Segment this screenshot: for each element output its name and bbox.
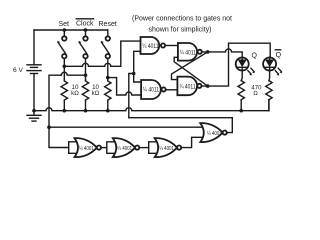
wire Set column	[63, 58, 65, 80]
NOR gate U7 1/4 4001 (inverter 3)	[149, 138, 182, 157]
wire Set signal rail (hops Clock and Reset columns, rises to NAND U1 input)	[64, 41, 140, 66]
label power note line 2	[149, 27, 212, 34]
node Reset junction	[106, 76, 110, 80]
resistor R4 470 (Q)	[238, 81, 244, 100]
label power note line 1	[132, 16, 232, 23]
wire U1 output to U3 input	[165, 45, 178, 47]
svg-text:Set: Set	[59, 21, 70, 28]
svg-text:¼ 4011: ¼ 4011	[142, 43, 159, 50]
LED D2 (Qbar)	[263, 57, 282, 75]
wire R4 to ground rail	[240, 100, 242, 111]
node R2 ground junction	[84, 109, 88, 113]
node Clock drop to bottom rail junction	[47, 125, 51, 129]
label R2 10 kOhm	[92, 84, 100, 97]
wire cross-couple U3 out to U4 input	[172, 52, 208, 80]
label Set	[59, 21, 70, 28]
switch Set	[57, 30, 66, 58]
wire Q output to LED1 (hops Qbar riser)	[202, 49, 242, 57]
wire battery bottom lead	[33, 74, 35, 111]
resistor R2 10k (Clock pulldown)	[82, 80, 88, 101]
wire enable riser from pulse rail	[129, 74, 134, 118]
label U7 1/4 4001	[159, 146, 174, 152]
wire R1 to ground rail	[63, 101, 65, 111]
label 6 V	[13, 67, 23, 74]
wire Qbar output to LED2	[202, 43, 271, 86]
wire U2 output to U4 input	[166, 89, 178, 91]
wire Reset signal to NAND U2 (hops enable riser)	[108, 78, 141, 95]
node bus-set junction	[63, 28, 67, 32]
label Reset	[99, 21, 117, 28]
node R3 ground junction	[106, 109, 110, 113]
svg-text:¼ 4001: ¼ 4001	[117, 146, 132, 152]
wire LED1 to R4	[241, 71, 242, 81]
NOR gate U5 1/4 4001 (inverter 1)	[69, 138, 101, 157]
label Clock (overline)	[76, 19, 94, 28]
label U8 1/4 4001	[207, 131, 222, 137]
op-amp U1 NAND 1/4 4011 (Set gate)	[141, 37, 166, 54]
wire +V bus	[34, 29, 108, 31]
node ground-battery junction	[32, 109, 36, 113]
wire R2 to ground rail	[85, 101, 87, 111]
wire U5 to U6	[101, 147, 107, 149]
wire Clock to pulse gate U8 input rail	[49, 126, 203, 128]
svg-text:¼ 4001: ¼ 4001	[79, 146, 94, 152]
node bus-clock junction	[84, 28, 88, 32]
svg-text:Reset: Reset	[99, 21, 117, 28]
svg-text:6 V: 6 V	[13, 67, 23, 74]
wire Clock signal rail (hops Set column, drops down at left)	[49, 72, 86, 147]
wire Clock column	[85, 58, 87, 80]
svg-text:Ω: Ω	[253, 91, 258, 97]
node U4 output junction	[206, 84, 210, 88]
wire Reset column	[107, 58, 109, 80]
wire LED2 to R5	[268, 71, 271, 81]
svg-text:Q: Q	[252, 53, 258, 60]
node Set rail junction	[63, 65, 67, 69]
LED D1 (Q)	[236, 57, 255, 75]
label U6 1/4 4001	[117, 146, 132, 152]
NOR gate U8 1/4 4001 (pulse gate)	[200, 123, 226, 142]
label Q	[252, 53, 258, 60]
wire enable net to U1 and U2 inputs	[134, 51, 141, 82]
battery 6V	[27, 65, 41, 74]
label U1 1/4 4011	[142, 43, 159, 50]
NOR gate U6 1/4 4001 (inverter 2)	[107, 138, 139, 157]
wire battery top lead	[33, 30, 35, 64]
node Clock rail junction	[84, 73, 88, 77]
svg-text:kΩ: kΩ	[71, 90, 79, 97]
node R4 ground junction	[239, 109, 243, 113]
op-amp U4 NAND 1/4 4011 (latch bottom)	[177, 77, 201, 96]
label R1 10 kOhm	[71, 84, 79, 97]
switch Reset	[101, 30, 110, 58]
wire cross-couple U4 out to U3 input	[174, 57, 208, 86]
resistor R3 10k (Reset pulldown)	[105, 80, 111, 101]
svg-text:¼ 4011: ¼ 4011	[179, 84, 196, 91]
wire ground rail (hops clock drop and enable riser)	[34, 100, 269, 111]
label 470 Ohm	[251, 85, 262, 97]
svg-text:¼ 4001: ¼ 4001	[159, 146, 174, 152]
node R1 ground junction	[63, 109, 67, 113]
node enable junction	[132, 72, 136, 76]
wire U6 to U7	[139, 147, 148, 149]
wire R3 to ground rail	[107, 101, 109, 111]
ground	[27, 111, 41, 121]
label U5 1/4 4001	[79, 146, 94, 152]
wire U8 output to pulse rail	[129, 118, 233, 133]
label U3 1/4 4011	[180, 49, 197, 56]
resistor R1 10k (Set pulldown)	[61, 80, 67, 101]
svg-text:¼ 4011: ¼ 4011	[143, 87, 160, 94]
label U4 1/4 4011	[179, 84, 196, 91]
svg-text:(Power connections to gates no: (Power connections to gates not	[132, 16, 232, 23]
wire R5 to ground rail	[268, 100, 270, 111]
svg-text:Q: Q	[276, 52, 282, 59]
node U3 output junction	[206, 50, 210, 54]
switch Clock	[79, 30, 88, 58]
label U2 1/4 4011	[143, 87, 160, 94]
svg-text:Clock: Clock	[76, 20, 94, 27]
op-amp U2 NAND 1/4 4011 (Reset gate)	[141, 80, 166, 99]
svg-text:¼ 4011: ¼ 4011	[180, 49, 197, 56]
op-amp U3 NAND 1/4 4011 (latch top)	[178, 43, 202, 61]
svg-text:¼ 4001: ¼ 4001	[207, 131, 222, 137]
svg-text:shown for simplicity): shown for simplicity)	[149, 27, 212, 34]
wire U7 output to U8 input	[181, 137, 202, 147]
resistor R5 470 (Qbar)	[266, 81, 272, 100]
svg-text:kΩ: kΩ	[92, 90, 100, 97]
label Qbar	[275, 50, 281, 59]
